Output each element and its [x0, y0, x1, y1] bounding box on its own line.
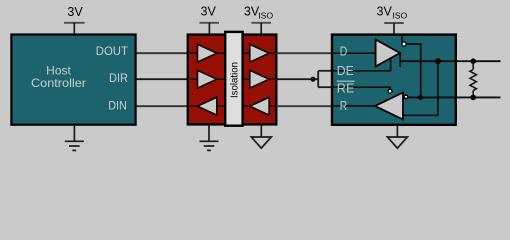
host ground symbol: [65, 140, 84, 142]
isolator left ground wire: [208, 125, 210, 141]
wire bubble to bus B: [406, 44, 421, 97]
isolator buffer triangle ch2 right: [250, 70, 269, 88]
isolator right isolated ground symbol (open triangle): [251, 137, 271, 148]
receiver enable bubble: [388, 89, 392, 93]
isolator channel stub wires inside red: [188, 53, 276, 106]
fork stub to RE: [318, 86, 333, 88]
svg-text:ISO: ISO: [258, 10, 273, 20]
wire DIR to isolation: [135, 78, 189, 80]
3V_ISO supply transceiver: stub: [393, 23, 395, 34]
junction dot on fork wire: [310, 77, 315, 82]
termination resistor zigzag: [470, 69, 476, 90]
wire R pin to isolator: [276, 105, 333, 107]
receiver triangle: [375, 93, 403, 120]
svg-text:3V: 3V: [67, 5, 83, 19]
3V_ISO supply transceiver: bar: [384, 22, 403, 24]
isolator buffer triangle ch2 left: [198, 70, 217, 88]
isolator left ground symbol: [200, 140, 219, 142]
RE wire inside: [332, 87, 390, 89]
3V_ISO supply isolator right: stub: [260, 23, 262, 34]
driver triangle: [376, 40, 400, 67]
svg-text:RE: RE: [337, 81, 355, 95]
wire DOUT to isolation: [135, 52, 189, 54]
svg-text:3V: 3V: [201, 5, 217, 19]
bus B wire: [408, 96, 501, 98]
bus A tap to receiver lower input: [403, 61, 438, 115]
3V supply host: stub wire: [73, 23, 75, 34]
termination resistor bottom lead: [472, 91, 474, 98]
R output wire inside: [332, 105, 376, 107]
svg-text:DIR: DIR: [109, 71, 128, 85]
RS-485 transceiver block: [332, 35, 456, 125]
termination resistor top lead: [472, 61, 474, 69]
svg-text:3V: 3V: [377, 5, 393, 19]
junction dot resistor top: [470, 58, 476, 64]
isolator buffer triangle ch1 left: [198, 44, 217, 62]
wire isolator to DE/RE fork: [276, 78, 318, 80]
isolator right isolated ground wire: [260, 125, 262, 137]
3V_ISO supply isolator right: bar: [252, 22, 272, 24]
svg-text:DE: DE: [337, 64, 354, 78]
fork vertical: [317, 71, 319, 87]
isolator buffer triangle ch3 right (reverse): [250, 97, 269, 115]
driver inverting output bubble: [402, 42, 406, 46]
svg-text:Controller: Controller: [31, 76, 86, 90]
host ground wire: [73, 125, 75, 141]
transceiver isolated ground symbol (open triangle): [387, 137, 407, 148]
svg-text:ISO: ISO: [392, 10, 407, 20]
junction dot bus A: [435, 58, 441, 64]
3V supply host: bar: [64, 22, 85, 24]
svg-text:R: R: [340, 99, 348, 113]
fork stub to DE: [318, 70, 333, 72]
D input wire inside: [332, 52, 376, 54]
driver output vertical (tip to below bus A): [399, 53, 401, 68]
bus A wire: [400, 60, 500, 62]
driver supply stub above bubble: [401, 36, 403, 43]
digital isolator block (red body): [188, 35, 276, 125]
receiver inverting input bubble: [404, 95, 408, 99]
isolator buffer triangle ch3 left (reverse): [198, 97, 217, 115]
wire DIN from isolation: [135, 105, 189, 107]
svg-text:DIN: DIN: [108, 99, 127, 113]
wire isolator to D pin: [276, 52, 333, 54]
3V supply isolator left: stub: [208, 23, 210, 34]
host controller block: [11, 35, 135, 125]
transceiver ground wire: [396, 125, 398, 137]
isolator buffer triangle ch1 right: [250, 44, 269, 62]
isolation barrier strip: [225, 32, 242, 126]
3V supply isolator left: bar: [200, 22, 220, 24]
svg-text:DOUT: DOUT: [96, 44, 129, 58]
junction dot bus B / driver Z: [418, 95, 423, 100]
svg-text:Isolation: Isolation: [230, 62, 241, 98]
junction dot resistor bottom: [470, 95, 476, 101]
DE wire inside: [332, 59, 391, 71]
svg-text:D: D: [340, 45, 348, 59]
